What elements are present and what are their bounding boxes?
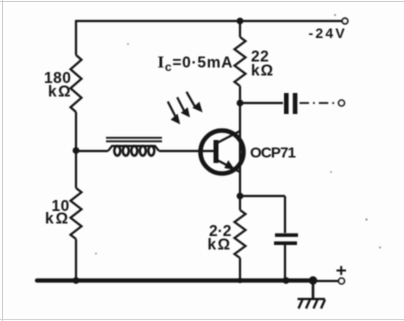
svg-text:kΩ: kΩ: [251, 63, 274, 80]
svg-text:Ic=0·5mA: Ic=0·5mA: [158, 53, 234, 75]
svg-text:OCP71: OCP71: [250, 145, 296, 162]
svg-text:kΩ: kΩ: [208, 237, 232, 254]
svg-text:kΩ: kΩ: [48, 84, 72, 101]
svg-text:-24V: -24V: [309, 25, 347, 41]
svg-text:kΩ: kΩ: [45, 211, 70, 228]
